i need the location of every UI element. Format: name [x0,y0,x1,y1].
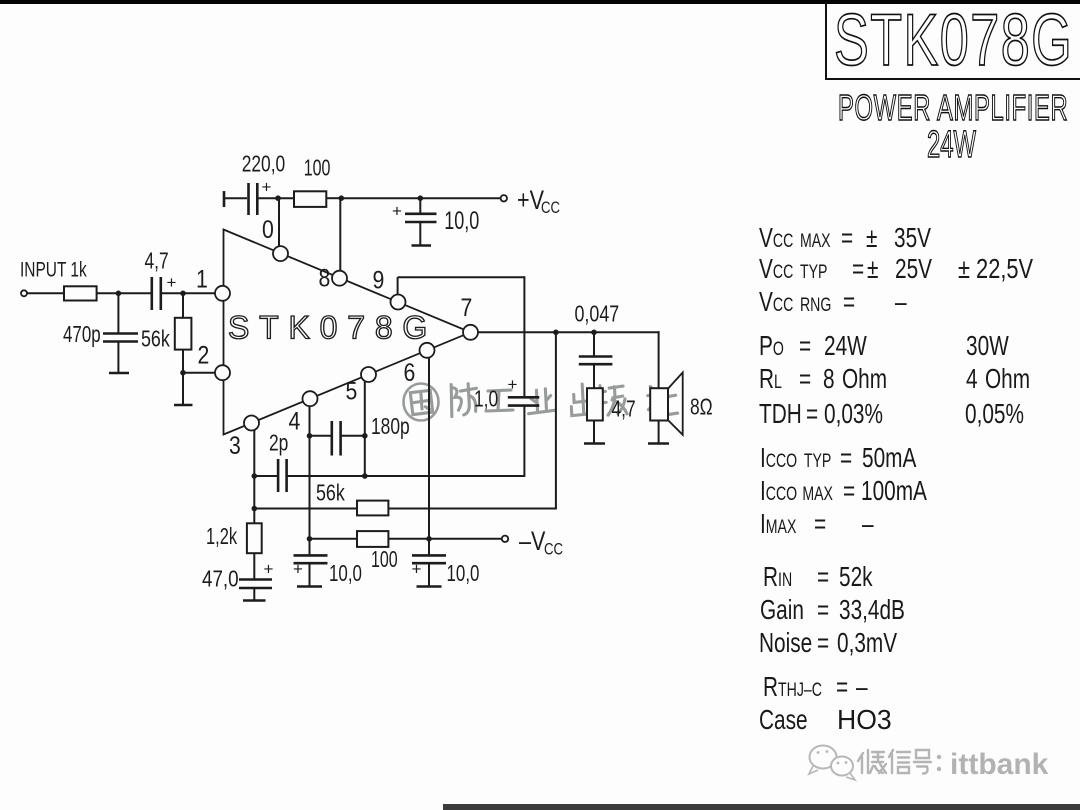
wire C10,0 left to ground [309,563,311,586]
wire pin6 down [428,358,430,556]
pin 1 circle [215,286,230,301]
svg-text:2: 2 [198,341,210,369]
wire node C to pin2 [183,372,215,374]
svg-text:470p: 470p [63,321,101,347]
wire pin9 up [397,277,399,295]
spec Vcc RNG [759,288,831,316]
wire R1,2k to C47,0 [253,553,255,579]
wire C10,0 top to ground [419,222,421,245]
node L junction [307,433,313,439]
svg-text:10,0: 10,0 [329,560,362,586]
wire node A down to C470p [117,293,119,333]
title text STK078G [834,0,1073,82]
watermark char SHE [647,385,678,418]
supply stub terminal [223,191,226,207]
pin 3 circle [244,416,259,431]
svg-text:180p: 180p [371,414,410,440]
wire C0,047 to R4,7 [593,364,595,389]
ground C10,0 right [417,585,442,588]
watermark char YE [527,388,554,413]
spec Noise [759,629,812,657]
spec Imax [760,510,796,538]
wire output corner to speaker [658,331,660,389]
svg-text:56k: 56k [316,480,345,506]
svg-text:4,7: 4,7 [612,396,636,422]
resistor 56k input [175,318,192,350]
svg-text:+: + [262,178,272,197]
title box STK078G [825,2,1080,80]
wire node E to node F [341,197,420,199]
wire node O to -Vcc [429,538,502,540]
node A junction [116,291,122,297]
node O junction [426,536,432,542]
op-amp U1 STK078G triangle [224,230,471,435]
wire input to R1k [27,292,64,294]
svg-text:0,047: 0,047 [575,301,620,327]
svg-text:8: 8 [319,264,331,292]
node B junction [180,291,186,297]
resistor 100 top [294,191,326,207]
spec Rthj-c [763,673,822,701]
pin 2 circle [215,365,230,380]
wire C220,0 to node D [259,197,295,199]
wire node D to pin0 [278,198,280,246]
node G junction [252,473,258,479]
wire C1,0 down [523,406,525,477]
svg-text:0: 0 [262,215,274,243]
footer char XIN [889,750,910,773]
ground C470p [109,372,129,375]
wire R100 to node E [326,197,342,199]
speaker LS1 [650,373,683,435]
resistor 100 bottom [357,531,388,547]
ground speaker [648,442,669,445]
wire node J down [593,332,595,356]
capacitor 1,0 feedback [508,397,540,405]
capacitor 180p [332,421,341,456]
top border bar [0,0,1080,4]
ground C10,0 left [297,585,322,588]
wire feedback top [398,276,525,278]
svg-text:1: 1 [196,265,208,293]
node C junction [180,370,186,376]
wire C4,7 to pin1 [162,292,215,294]
footer colon [937,755,941,771]
capacitor 10,0 right [412,555,446,563]
capacitor 2p [278,459,287,492]
wire node E to pin8 [339,198,341,271]
wire R100 to node O [388,538,429,540]
spec Gain [760,596,804,624]
svg-text:+: + [392,202,402,221]
capacitor 220,0 [249,183,258,215]
node H junction on 2p wire [362,473,368,479]
wire feedback bottom to 2p [287,475,524,477]
wire pin4 down [309,406,311,555]
wire C470p to ground [117,342,119,374]
ground C47,0 [243,599,266,602]
node M junction [362,433,368,439]
svg-text:+: + [264,560,274,579]
pin 9 circle [391,295,406,310]
svg-text:47,0: 47,0 [202,566,239,593]
wire 56k row left [254,508,357,510]
wire stub to C220,0 [224,197,247,199]
wire pin5 down [364,382,366,476]
svg-text:–V: –V [519,527,546,557]
spec Icco MAX [760,477,833,505]
spec Icco TYP [760,444,831,472]
svg-text:1,2k: 1,2k [206,524,238,549]
spec Vcc TYP [759,255,827,283]
pin 8 circle [332,271,347,286]
spec Po [759,332,784,360]
wire 56k row right [388,508,557,510]
svg-text:4: 4 [289,407,301,435]
svg-text:7: 7 [461,293,473,321]
wire node N to R100 [310,538,358,540]
wire speaker to ground [658,421,660,444]
svg-text:+: + [508,375,518,394]
ground node C [174,404,193,407]
svg-text:6: 6 [404,358,416,386]
svg-text:100: 100 [371,547,398,573]
svg-text:5: 5 [346,377,358,405]
capacitor 10,0 top [405,214,437,222]
svg-text:56k: 56k [141,326,170,352]
watermark char GONG [486,390,513,411]
wire R1k to node A [97,292,119,294]
node J junction [591,330,597,336]
svg-text:+: + [293,560,303,579]
terminal -Vcc [502,536,508,542]
capacitor 4,7 input [152,277,161,310]
input terminal [21,290,27,296]
svg-text:CC: CC [544,540,563,559]
node F junction [418,195,424,201]
wechat icon small bubble [831,757,855,781]
spec RL [759,365,782,393]
svg-text:INPUT 1k: INPUT 1k [20,257,87,281]
footer char WEI [858,750,886,773]
resistor 4,7 zobel [587,388,603,420]
wire node A to C4,7 [118,292,150,294]
wire C47,0 to ground [253,588,255,600]
svg-text:1,0: 1,0 [474,386,498,412]
node E junction [339,195,345,201]
pin 0 circle [273,246,288,261]
watermark char FANG [450,383,478,416]
svg-text:4,7: 4,7 [145,248,169,274]
wire pin7 output [478,331,660,333]
svg-text:+: + [412,560,422,579]
subtitle POWER AMPLIFIER [838,87,1068,129]
capacitor 0,047 [579,357,613,365]
wire C10,0 right to ground [428,563,430,586]
watermark circle around GUO [404,384,439,421]
wire node B down to R56k [182,293,184,318]
terminal +Vcc [501,195,507,201]
bottom border bar [443,804,1080,810]
pin 6 circle [420,343,435,358]
wire pin3 down [253,430,255,524]
node D junction [275,195,281,201]
spec Vcc MAX [759,224,831,252]
spec Rin [763,563,792,591]
svg-text:3: 3 [229,431,241,459]
wire feedback right down [523,276,525,396]
wire node F to +Vcc [420,197,500,199]
subtitle 24W [927,124,976,167]
svg-text:STK078G: STK078G [228,310,437,346]
svg-text:10,0: 10,0 [447,560,480,586]
svg-text:10,0: 10,0 [444,206,479,235]
node I junction [553,330,559,336]
svg-text:100: 100 [304,156,331,182]
node K junction [252,506,258,512]
svg-text:2p: 2p [269,430,288,456]
wire 180p left [310,435,332,437]
watermark char CHU [570,383,596,415]
wire 180p right [342,435,365,437]
ground zobel [584,442,605,445]
capacitor 470p [103,334,138,342]
resistor 1k [64,286,97,300]
watermark char GUO [410,390,433,414]
pin 7 circle [463,325,478,340]
resistor 56k feedback [357,501,388,516]
wire node C to ground [182,373,184,405]
wire 2p to node G [254,475,277,477]
wechat icon big bubble [809,746,837,775]
capacitor 10,0 left [294,555,328,563]
pin 4 circle [303,391,318,406]
capacitor 47,0 [239,580,272,589]
svg-text:9: 9 [373,266,385,294]
resistor 1,2k [247,523,262,553]
svg-text:CC: CC [541,199,560,218]
svg-text:+: + [167,273,177,292]
node N junction [307,536,313,542]
watermark char BAN [595,384,627,416]
wire output down to 56k [555,332,557,508]
wire R56k to node C [182,350,184,373]
svg-text:8Ω: 8Ω [690,394,713,420]
footer char HAO [914,750,931,774]
pin 5 circle [361,367,376,382]
spec Case [759,706,808,734]
wire node F to C10,0 top [419,198,421,214]
wire R4,7 to ground [593,421,595,444]
svg-text:220,0: 220,0 [242,151,285,177]
spec TDH [759,400,802,428]
ground C10,0 top [412,244,432,247]
